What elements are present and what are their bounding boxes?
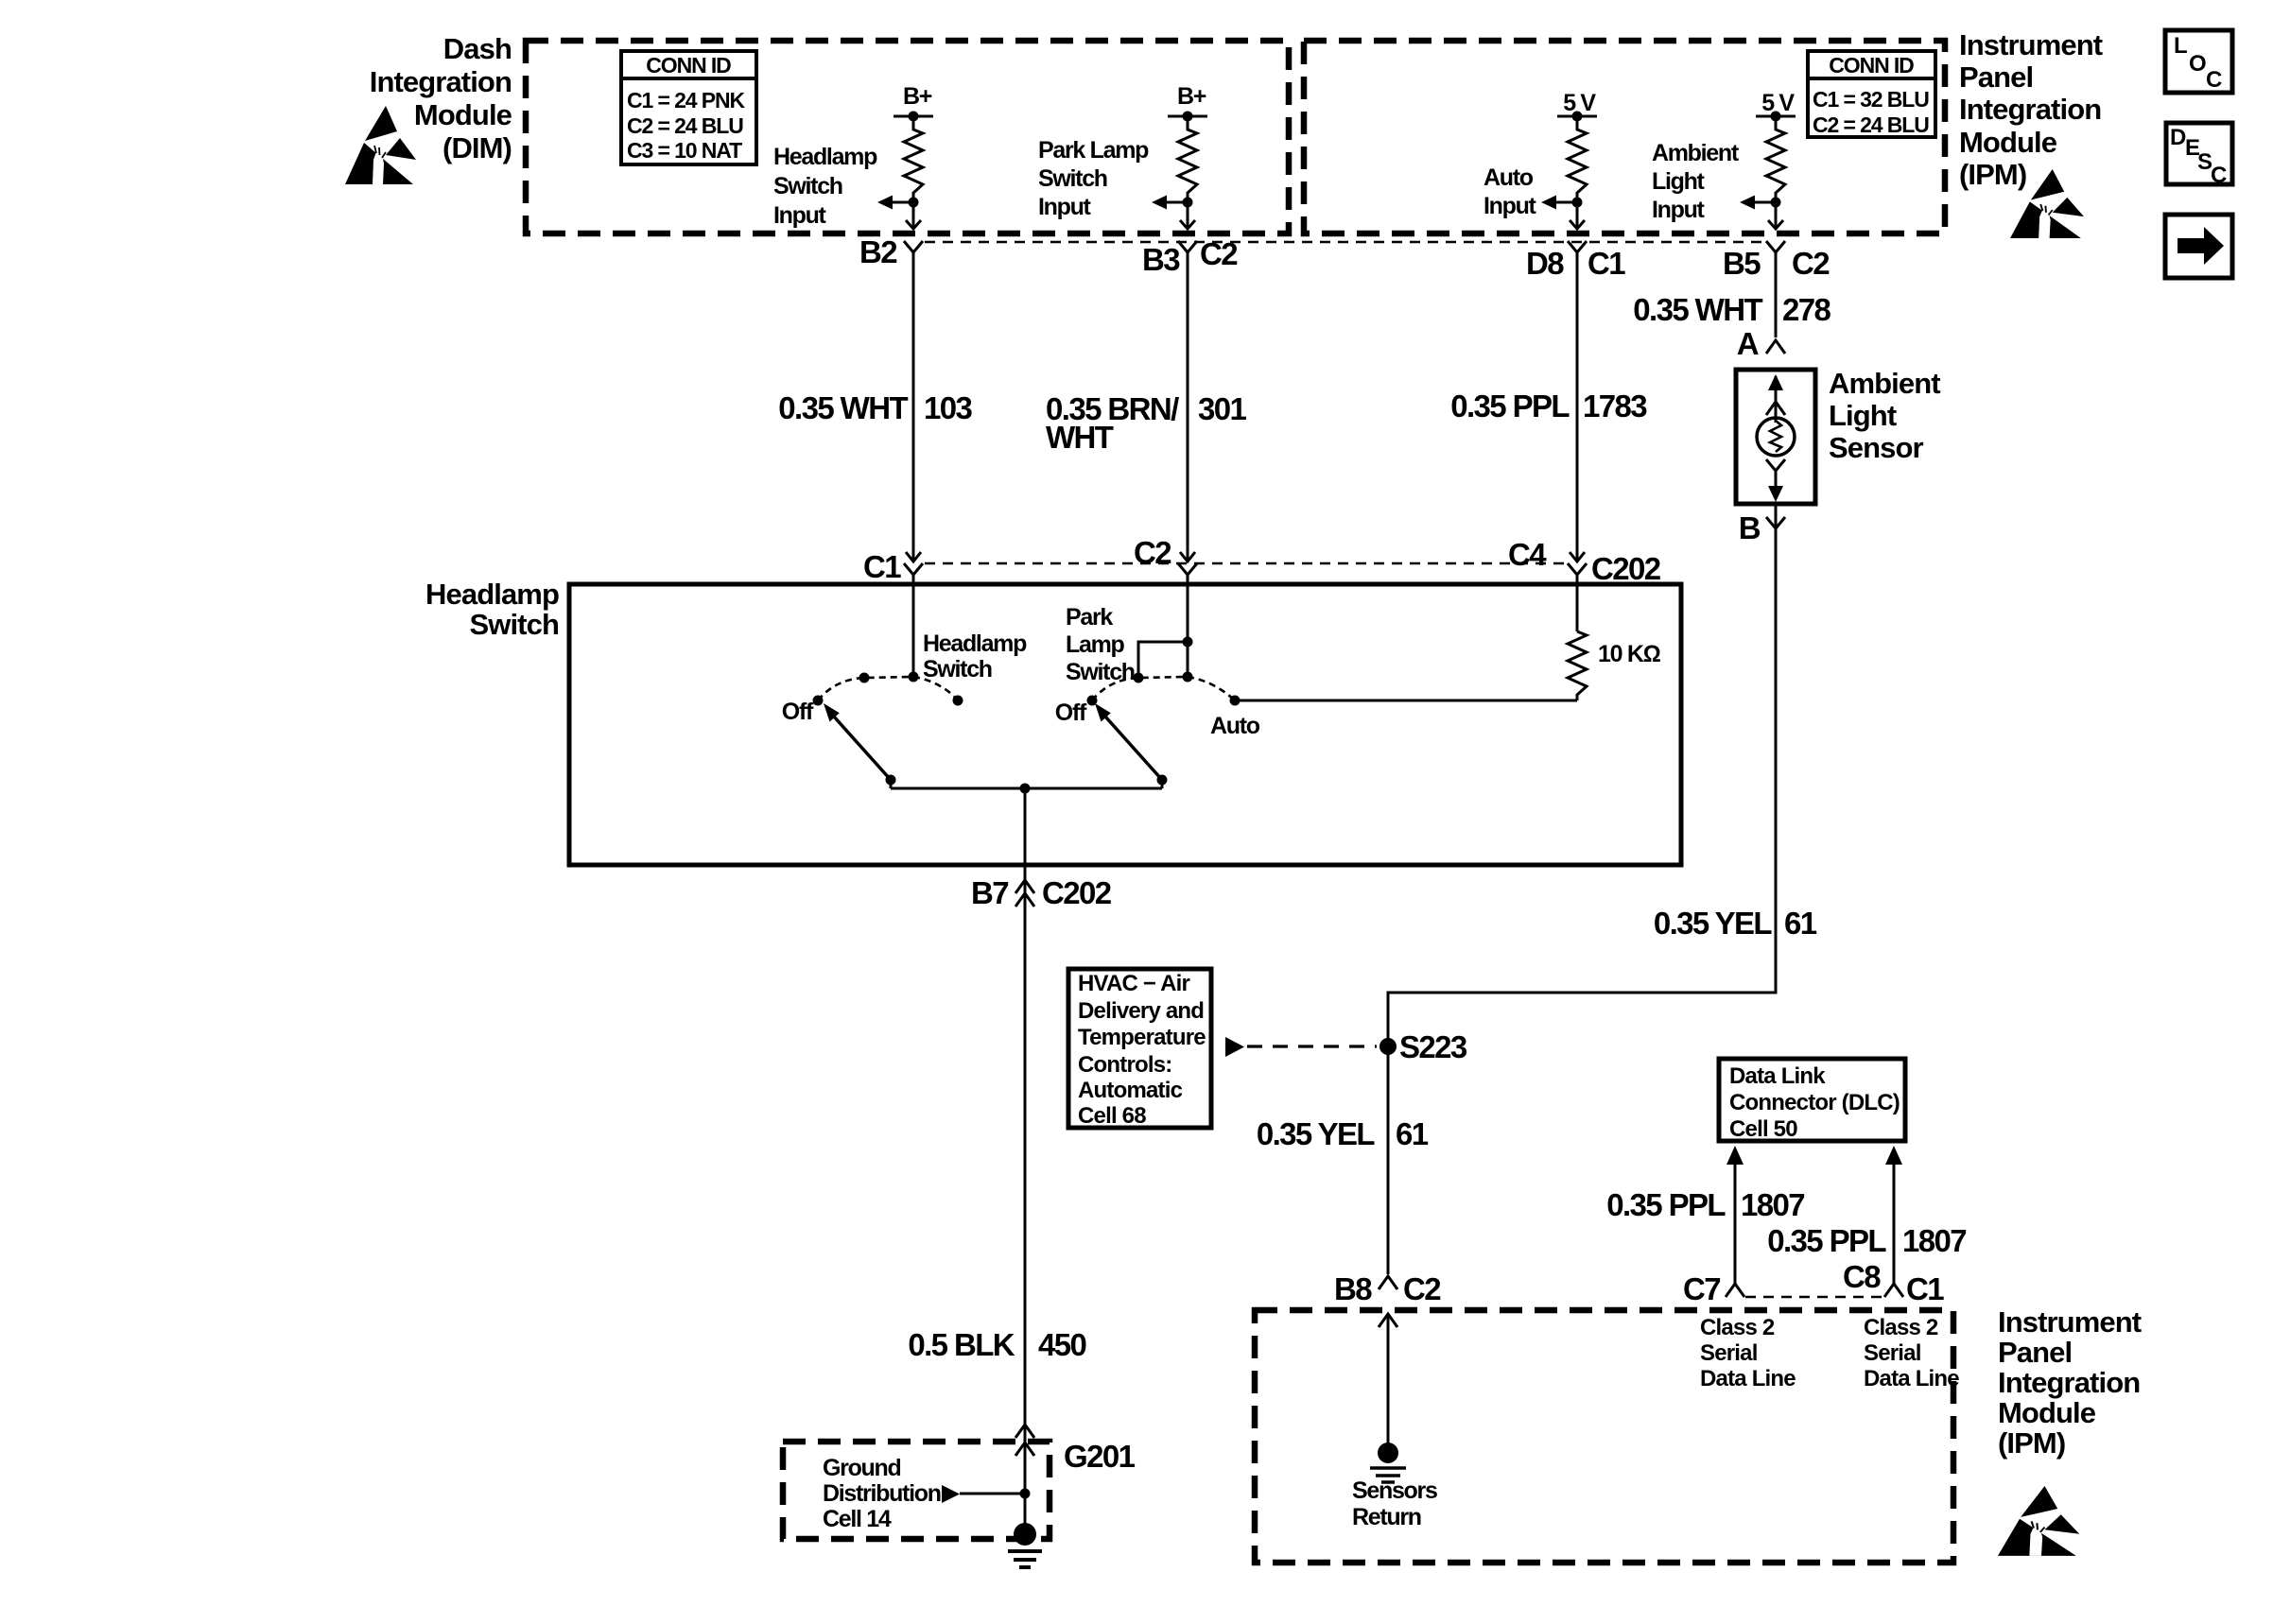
- svg-text:B8: B8: [1334, 1271, 1372, 1306]
- svg-text:Data Line: Data Line: [1700, 1366, 1796, 1391]
- svg-text:C2 = 24 BLU: C2 = 24 BLU: [627, 113, 743, 138]
- svg-text:C2: C2: [1134, 535, 1171, 570]
- svg-text:C1 = 24 PNK: C1 = 24 PNK: [627, 88, 746, 112]
- svg-text:450: 450: [1038, 1327, 1086, 1362]
- svg-text:Input: Input: [773, 202, 827, 229]
- svg-text:0.5 BLK: 0.5 BLK: [908, 1327, 1015, 1362]
- svg-text:0.35 PPL: 0.35 PPL: [1450, 389, 1570, 423]
- svg-text:Headlamp: Headlamp: [425, 578, 559, 611]
- svg-text:Park: Park: [1066, 604, 1113, 631]
- svg-text:B+: B+: [903, 83, 932, 110]
- svg-text:Switch: Switch: [1038, 165, 1107, 192]
- svg-text:Connector (DLC): Connector (DLC): [1729, 1090, 1900, 1115]
- svg-text:C202: C202: [1591, 551, 1661, 586]
- svg-text:C7: C7: [1683, 1271, 1720, 1306]
- svg-text:CONN ID: CONN ID: [1829, 53, 1914, 78]
- svg-text:Park Lamp: Park Lamp: [1038, 137, 1149, 164]
- svg-text:Ambient: Ambient: [1652, 140, 1740, 166]
- svg-text:Integration: Integration: [1959, 93, 2101, 126]
- svg-text:Sensor: Sensor: [1829, 431, 1924, 464]
- svg-text:Return: Return: [1352, 1504, 1421, 1530]
- svg-text:Temperature: Temperature: [1078, 1025, 1206, 1050]
- svg-text:Ground: Ground: [823, 1455, 900, 1481]
- svg-text:S223: S223: [1399, 1029, 1467, 1064]
- svg-text:Switch: Switch: [469, 608, 559, 641]
- svg-text:Module: Module: [414, 98, 512, 131]
- svg-text:61: 61: [1784, 906, 1817, 941]
- svg-text:5 V: 5 V: [1563, 90, 1596, 116]
- svg-text:Auto: Auto: [1484, 164, 1534, 191]
- svg-text:Off: Off: [782, 699, 814, 725]
- svg-text:O: O: [2189, 51, 2207, 77]
- svg-text:C1: C1: [1588, 246, 1625, 281]
- svg-text:B+: B+: [1177, 83, 1206, 110]
- svg-text:CONN ID: CONN ID: [646, 53, 731, 78]
- svg-text:C1: C1: [863, 549, 901, 584]
- svg-text:Data Line: Data Line: [1864, 1366, 1959, 1391]
- svg-text:Auto: Auto: [1210, 713, 1260, 739]
- svg-text:5 V: 5 V: [1761, 90, 1795, 116]
- svg-text:Cell 68: Cell 68: [1078, 1103, 1146, 1129]
- svg-text:Data Link: Data Link: [1729, 1063, 1826, 1089]
- svg-text:(DIM): (DIM): [442, 131, 512, 164]
- svg-text:Class 2: Class 2: [1700, 1315, 1775, 1340]
- svg-text:Dash: Dash: [443, 32, 512, 65]
- svg-text:WHT: WHT: [1046, 420, 1114, 455]
- svg-text:Panel: Panel: [1998, 1336, 2072, 1369]
- svg-text:(IPM): (IPM): [1998, 1426, 2065, 1460]
- svg-text:G201: G201: [1064, 1439, 1136, 1474]
- svg-text:Off: Off: [1055, 700, 1087, 726]
- svg-text:Module: Module: [1959, 126, 2057, 159]
- svg-text:1783: 1783: [1583, 389, 1647, 423]
- svg-text:Sensors: Sensors: [1352, 1477, 1437, 1504]
- svg-text:Input: Input: [1484, 193, 1537, 219]
- svg-text:Switch: Switch: [773, 173, 842, 199]
- svg-text:D8: D8: [1526, 246, 1564, 281]
- svg-text:C: C: [2206, 67, 2222, 93]
- svg-text:Cell 50: Cell 50: [1729, 1116, 1797, 1142]
- svg-text:C2: C2: [1792, 246, 1830, 281]
- svg-text:Panel: Panel: [1959, 60, 2033, 94]
- svg-text:C8: C8: [1843, 1259, 1881, 1294]
- svg-text:C2 = 24 BLU: C2 = 24 BLU: [1813, 112, 1929, 137]
- svg-text:Controls:: Controls:: [1078, 1052, 1171, 1078]
- svg-text:Instrument: Instrument: [1998, 1305, 2142, 1339]
- svg-text:Automatic: Automatic: [1078, 1078, 1183, 1103]
- svg-text:B5: B5: [1723, 246, 1761, 281]
- svg-text:Switch: Switch: [1066, 659, 1135, 685]
- svg-text:C2: C2: [1403, 1271, 1441, 1306]
- svg-text:Lamp: Lamp: [1066, 631, 1125, 658]
- svg-text:Input: Input: [1652, 197, 1706, 223]
- svg-text:(IPM): (IPM): [1959, 158, 2026, 191]
- svg-text:D: D: [2170, 125, 2186, 150]
- svg-text:103: 103: [924, 390, 973, 425]
- svg-text:Integration: Integration: [1998, 1366, 2140, 1399]
- svg-text:61: 61: [1396, 1116, 1429, 1151]
- svg-text:0.35 WHT: 0.35 WHT: [1633, 292, 1762, 327]
- svg-text:C3 = 10 NAT: C3 = 10 NAT: [627, 138, 742, 163]
- svg-text:A: A: [1737, 326, 1759, 361]
- svg-text:L: L: [2174, 33, 2188, 59]
- svg-text:C1 = 32 BLU: C1 = 32 BLU: [1813, 87, 1929, 112]
- svg-text:Light: Light: [1652, 168, 1706, 195]
- svg-text:Distribution: Distribution: [823, 1480, 941, 1507]
- svg-text:B: B: [1739, 510, 1761, 545]
- svg-text:Headlamp: Headlamp: [773, 144, 877, 170]
- svg-text:Delivery and: Delivery and: [1078, 998, 1204, 1024]
- svg-text:10 KΩ: 10 KΩ: [1598, 641, 1661, 667]
- svg-text:278: 278: [1782, 292, 1831, 327]
- svg-text:Switch: Switch: [923, 656, 992, 682]
- svg-text:Class 2: Class 2: [1864, 1315, 1938, 1340]
- svg-text:Instrument: Instrument: [1959, 28, 2103, 61]
- svg-text:1807: 1807: [1741, 1187, 1804, 1222]
- svg-text:Serial: Serial: [1864, 1340, 1921, 1366]
- svg-text:C202: C202: [1042, 875, 1112, 910]
- svg-text:HVAC − Air: HVAC − Air: [1078, 971, 1189, 996]
- svg-text:0.35 YEL: 0.35 YEL: [1257, 1116, 1376, 1151]
- svg-text:C: C: [2211, 163, 2227, 188]
- svg-text:B2: B2: [859, 234, 897, 269]
- svg-text:Headlamp: Headlamp: [923, 631, 1027, 657]
- svg-text:Module: Module: [1998, 1396, 2096, 1429]
- svg-text:301: 301: [1198, 391, 1247, 426]
- svg-text:B7: B7: [971, 875, 1008, 910]
- svg-text:C2: C2: [1200, 236, 1238, 271]
- svg-text:B3: B3: [1142, 242, 1180, 277]
- svg-text:Cell 14: Cell 14: [823, 1506, 892, 1532]
- svg-text:Input: Input: [1038, 194, 1092, 220]
- svg-text:0.35 PPL: 0.35 PPL: [1767, 1223, 1886, 1258]
- svg-text:0.35 YEL: 0.35 YEL: [1654, 906, 1773, 941]
- svg-text:0.35 WHT: 0.35 WHT: [778, 390, 908, 425]
- svg-text:C4: C4: [1508, 537, 1547, 572]
- svg-text:Light: Light: [1829, 399, 1897, 432]
- svg-text:Ambient: Ambient: [1829, 367, 1940, 400]
- svg-text:0.35 PPL: 0.35 PPL: [1606, 1187, 1726, 1222]
- svg-text:Integration: Integration: [370, 65, 512, 98]
- svg-text:1807: 1807: [1902, 1223, 1966, 1258]
- svg-text:Serial: Serial: [1700, 1340, 1758, 1366]
- svg-text:C1: C1: [1906, 1271, 1944, 1306]
